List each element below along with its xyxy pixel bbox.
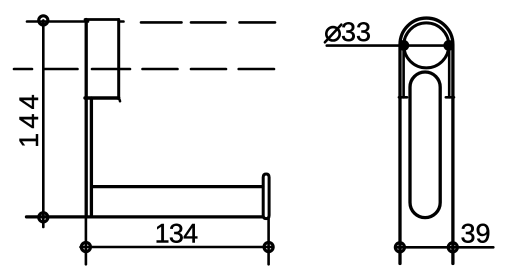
node roll circle o33 (right view): [404, 23, 449, 68]
node roll-bar bottom edge (left view): [27, 215, 263, 218]
wire 39 dimension line: [397, 246, 494, 249]
node ring bottom right stub: [446, 96, 454, 99]
node 134 right marker: [264, 242, 273, 251]
svg-text:39: 39: [460, 219, 490, 249]
node bracket box corner fillet: [117, 98, 120, 101]
node 134 left marker: [81, 242, 90, 251]
svg-text:144: 144: [14, 90, 44, 148]
svg-text:33: 33: [341, 17, 371, 47]
wire 134 left extension: [85, 218, 88, 264]
node 39 right marker: [448, 243, 457, 252]
node 39 left marker: [395, 243, 404, 252]
node bracket box bottom edge: [85, 96, 119, 99]
wire 134 dimension line: [81, 246, 273, 249]
wire centerline dashed lower: [14, 68, 274, 71]
node 144 bottom marker: [39, 213, 48, 222]
node o33 diameter symbol: [326, 27, 339, 40]
node end cap (left view): [263, 174, 269, 219]
node strap edge vertical (left view): [90, 98, 93, 217]
svg-text:134: 134: [155, 219, 198, 249]
node ring bottom left stub: [399, 96, 407, 99]
node bracket box top edge (left view): [85, 18, 119, 21]
wire centerline dashed upper: [141, 21, 275, 24]
wire 144 dimension line: [42, 20, 45, 227]
node wall plate vertical (left view): [85, 20, 88, 217]
node bracket box right edge: [117, 20, 120, 99]
wire 134 right extension: [267, 219, 270, 265]
wire o33 leader line: [327, 44, 453, 47]
node o33 leader dot right: [443, 40, 454, 51]
node ring inner wall left: [402, 46, 405, 97]
node ring inner wall right: [448, 46, 451, 97]
node holder outer profile (right view): [400, 18, 453, 263]
wire top extension line (144 dim, left view): [27, 20, 88, 23]
node o33 leader dot left: [398, 40, 409, 51]
node roll-bar top edge (left view): [92, 185, 263, 188]
wire solid stub right of box: [119, 20, 124, 23]
node slot stadium (right view): [410, 72, 440, 218]
node 144 top marker: [39, 16, 48, 25]
